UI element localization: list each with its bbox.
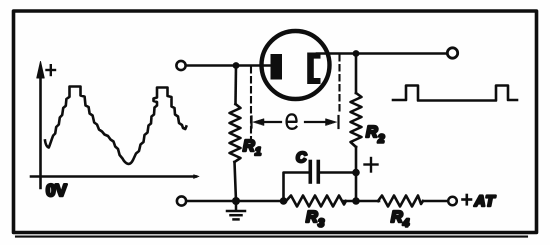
label C <box>296 150 307 166</box>
bottom-left terminal <box>177 196 186 205</box>
junction node capacitor right <box>352 169 360 177</box>
supply terminal <box>448 197 457 206</box>
plus mark at node <box>365 158 378 172</box>
tube V1 left plate electrode <box>271 54 283 80</box>
label e <box>287 114 297 128</box>
resistor R4 <box>378 196 423 207</box>
resistor R3 <box>286 196 346 207</box>
wire R2 bottom to rail <box>355 147 358 201</box>
svg-text:R: R <box>243 138 255 155</box>
dashed extension line right <box>338 55 340 114</box>
plus polarity mark on axis <box>47 65 56 75</box>
svg-text:2: 2 <box>377 134 385 146</box>
wire capacitor to R2 node <box>320 171 356 174</box>
svg-text:3: 3 <box>318 218 324 230</box>
wire R3 to R4 <box>344 200 379 203</box>
tube V1 right bracket electrode <box>307 53 320 85</box>
wire junction down to R1 <box>234 66 237 105</box>
dimension bar right <box>337 116 339 128</box>
resistor R1 <box>230 104 241 162</box>
ground symbol <box>227 203 245 219</box>
svg-text:0V: 0V <box>46 181 67 200</box>
dimension arrow left <box>253 119 281 126</box>
wire R1 bottom to ground rail <box>235 162 237 201</box>
svg-text:C: C <box>296 150 307 166</box>
resistor R2 <box>351 93 362 147</box>
svg-text:4: 4 <box>402 218 409 230</box>
label R3 <box>306 209 324 230</box>
output pulse waveform <box>393 86 517 101</box>
junction node at R1 top <box>233 62 240 69</box>
svg-text:1: 1 <box>255 146 261 158</box>
label R1 <box>243 138 261 158</box>
svg-text:AT: AT <box>474 193 497 210</box>
output terminal <box>447 48 457 58</box>
junction node at R3 left <box>280 197 288 205</box>
wire input terminal to tube <box>187 64 272 67</box>
label R4 <box>391 209 409 230</box>
svg-text:R: R <box>391 209 403 226</box>
dashed extension line left <box>250 67 252 138</box>
junction node at R2 top <box>353 50 360 57</box>
junction node at R3 right <box>352 197 360 205</box>
ground rail wire <box>187 200 286 203</box>
svg-text:R: R <box>366 124 378 141</box>
tube V1 envelope <box>262 31 330 99</box>
input waveform <box>45 87 186 164</box>
wire tube to output terminal <box>317 52 447 55</box>
dimension arrow right <box>305 119 337 126</box>
wire R2 top <box>355 54 358 94</box>
dimension bar left <box>250 117 252 128</box>
wire R4 to supply terminal <box>423 200 448 203</box>
axis for input waveform <box>31 62 199 189</box>
input terminal <box>176 61 185 70</box>
svg-text:R: R <box>306 209 318 226</box>
capacitor C <box>310 162 318 183</box>
junction node at ground <box>232 197 240 205</box>
label +AT <box>463 193 497 210</box>
0V label <box>46 181 67 200</box>
wire riser to capacitor <box>284 173 309 202</box>
label R2 <box>366 124 385 146</box>
